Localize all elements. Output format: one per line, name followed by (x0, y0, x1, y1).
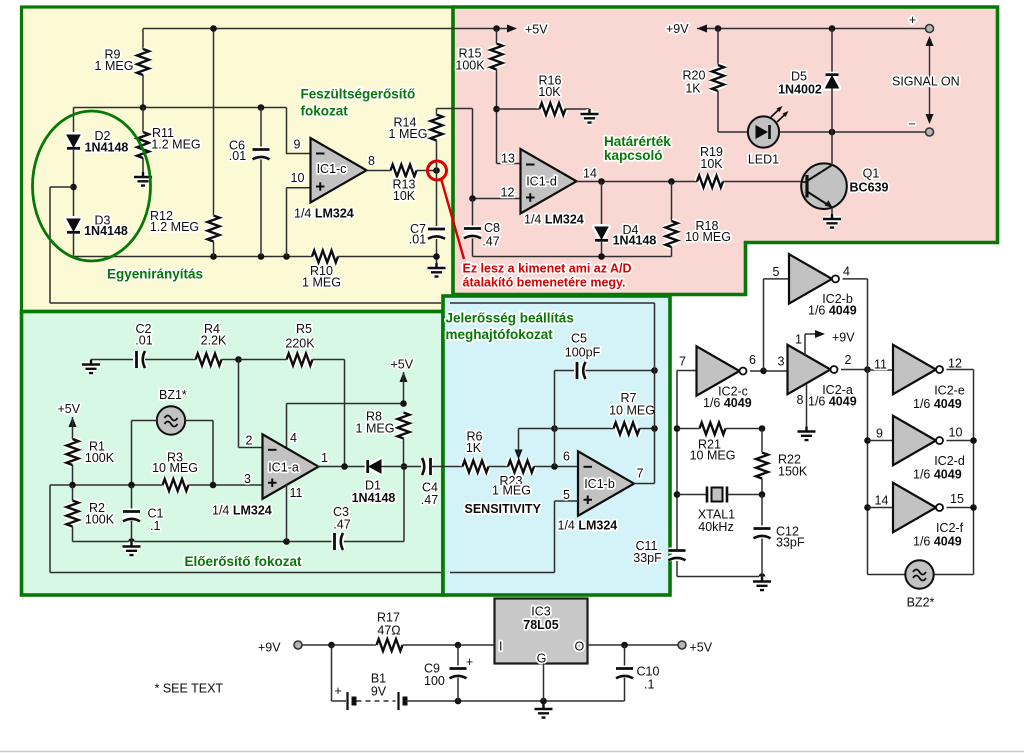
wire battery branch (332, 645, 347, 701)
wire pin9 (287, 108, 311, 154)
svg-text:47Ω: 47Ω (377, 624, 400, 638)
wire R18 bottom (671, 247, 673, 257)
capacitor C5 (565, 332, 601, 380)
op-amp IC1-c (311, 138, 376, 203)
label pin 1 (795, 333, 802, 347)
svg-text:100K: 100K (85, 513, 115, 527)
node dot bus/IC2-d in (864, 437, 871, 444)
resistor R8 (356, 410, 410, 439)
label 1/4 LM324 (IC1-b) (558, 519, 618, 533)
wire G pin (543, 664, 545, 702)
wire C8 bottom (472, 239, 474, 257)
annotation red text (463, 262, 632, 290)
node dot rail/R15 (493, 25, 500, 32)
node dot D2/D3 (70, 184, 77, 191)
svg-text:1 MEG: 1 MEG (302, 276, 341, 290)
node dot pin6/feedback (551, 463, 558, 470)
wire IC2-a pin1 +9V (805, 330, 825, 355)
ground R11 (134, 172, 152, 186)
wire IC2-f out (947, 507, 974, 509)
capacitor C4 (421, 458, 438, 507)
svg-text:1: 1 (795, 333, 802, 347)
svg-text:3: 3 (244, 472, 251, 486)
wire IC2-e out + right bus (934, 370, 974, 575)
node dot C7/bottom rail (433, 253, 440, 260)
ground IC2-a pin8 (798, 427, 816, 441)
wire pin5 return mint part (50, 485, 441, 573)
node dot wiper/R7 (551, 425, 558, 432)
arrow +9V left (697, 25, 707, 33)
svg-text:.01: .01 (409, 233, 426, 247)
label 1/4 LM324 (IC1-c) (294, 207, 354, 221)
wire R16 right (566, 108, 590, 110)
svg-text:12: 12 (501, 186, 515, 200)
svg-text:10 MEG: 10 MEG (152, 461, 198, 475)
wire D5 top (831, 29, 833, 74)
measure arrow SIGNAL ON (926, 36, 934, 124)
op-amp IC1-b (578, 451, 644, 516)
wire pin5 IC2-b drop (764, 279, 790, 371)
wire node A horizontal (74, 107, 287, 109)
svg-text:2: 2 (845, 353, 852, 367)
crystal XTAL1 (698, 487, 735, 535)
wire C10 (624, 645, 626, 701)
svg-text:R20: R20 (683, 69, 706, 83)
label battery plus (334, 684, 341, 698)
svg-text:14: 14 (583, 167, 597, 181)
label pin 11 (290, 486, 303, 500)
label pin 4 (290, 431, 297, 445)
wire R23-pin6 (534, 466, 578, 468)
svg-text:4: 4 (843, 265, 850, 279)
label pin 5 (IC2-b) (773, 265, 780, 279)
label pin 2 (246, 434, 253, 448)
wire IC2-d in (868, 440, 894, 442)
resistor R9 (95, 48, 149, 76)
wire R20 top (717, 29, 719, 65)
svg-text:1.2 MEG: 1.2 MEG (151, 138, 200, 152)
svg-text:Határérték: Határérték (604, 134, 671, 149)
node dot D4/out (598, 178, 605, 185)
wire C2 left (91, 359, 133, 361)
block: signal level / driver region (cyan) (443, 296, 670, 595)
block: preamp stage region (mint green) (22, 312, 444, 596)
svg-text:.1: .1 (644, 678, 654, 692)
annotation green ellipse (33, 111, 151, 261)
svg-text:1: 1 (321, 451, 328, 465)
svg-text:9: 9 (876, 427, 883, 441)
node dot outbus/IC2a (864, 366, 871, 373)
wire R11 top (142, 108, 144, 133)
label pin 9 (294, 138, 301, 152)
svg-text:1/4 LM324: 1/4 LM324 (212, 504, 272, 518)
svg-text:8: 8 (797, 393, 804, 407)
svg-text:11: 11 (290, 486, 303, 500)
svg-text:.47: .47 (482, 235, 499, 249)
node dot BZ1r/rail (210, 482, 217, 489)
wire C1 (131, 485, 133, 542)
wire R4-node (222, 359, 239, 361)
svg-text:.01: .01 (229, 149, 246, 163)
node dot R18/out (668, 178, 675, 185)
wire Q1 emitter (831, 208, 833, 215)
svg-text:C8: C8 (484, 221, 500, 235)
svg-text:1K: 1K (466, 441, 482, 455)
wire +9V to R17 (302, 644, 376, 646)
svg-text:40kHz: 40kHz (698, 520, 733, 534)
node dot C5/outnet (651, 367, 658, 374)
capacitor C2 (135, 322, 152, 368)
wire C7 bottom (436, 239, 438, 263)
resistor R7 (609, 391, 655, 435)
capacitor C1 (123, 507, 164, 534)
svg-text:Jelerősség beállítás: Jelerősség beállítás (446, 311, 574, 326)
capacitor C8 (464, 221, 500, 249)
wire feedback vertical (554, 371, 556, 467)
label pin 10 (291, 171, 305, 185)
label pin 3 (778, 355, 785, 369)
svg-text:10 MEG: 10 MEG (685, 230, 731, 244)
wire C5 right (586, 370, 655, 372)
ground R16 (581, 109, 599, 123)
resistor R10 (302, 251, 341, 290)
ground Q1 (823, 214, 841, 228)
wire IC2-b out (843, 278, 868, 280)
node dot R4/R5/pin2 (235, 356, 242, 363)
regulator IC3 78L05 (495, 599, 588, 666)
svg-text:Előerősítő fokozat: Előerősítő fokozat (185, 554, 303, 569)
node dot bus/IC2-f in (864, 504, 871, 511)
wire R9 bottom (142, 75, 144, 108)
wire BZ1 left (132, 421, 157, 486)
svg-text:Ez lesz a kimenet ami az A/D: Ez lesz a kimenet ami az A/D (463, 262, 632, 276)
inverter IC2-d (893, 416, 965, 482)
svg-text:1 MEG: 1 MEG (95, 59, 134, 73)
svg-text:+: + (334, 684, 341, 698)
node dot R7/outnet (651, 425, 658, 432)
diode D1 (352, 460, 396, 505)
svg-text:IC3: IC3 (531, 605, 551, 619)
resistor R4 (196, 322, 228, 366)
diode D2 (67, 129, 128, 155)
wire IC2-d out (947, 440, 974, 442)
svg-text:Feszültségerősítő: Feszültségerősítő (301, 87, 416, 102)
resistor R19 (697, 145, 723, 188)
wire R20 to LED (718, 91, 748, 132)
wire XTAL right (727, 494, 762, 496)
svg-text:4: 4 (290, 431, 297, 445)
label pin 14 (875, 494, 889, 508)
svg-text:1/6 4049: 1/6 4049 (808, 395, 857, 409)
node dot C9 top (455, 642, 462, 649)
svg-text:1/6 4049: 1/6 4049 (913, 397, 962, 411)
arrow +5V up (R8) (400, 372, 408, 404)
svg-text:3: 3 (778, 355, 785, 369)
svg-text:6: 6 (563, 450, 570, 464)
block: rectifier stage region (yellow) (22, 7, 454, 312)
svg-text:+5V: +5V (391, 358, 414, 372)
resistor R17 (377, 611, 403, 652)
wire R8 bottom (403, 439, 405, 467)
annotation red circle (428, 161, 447, 180)
svg-text:1K: 1K (685, 82, 701, 96)
inverter IC2-b (789, 254, 857, 317)
wire node3 rail (50, 484, 263, 486)
title Egyeniranyitas (107, 267, 203, 282)
block: threshold switch region (pink) (453, 7, 998, 295)
node dot C10 top (621, 642, 628, 649)
wire mint bottom rail (73, 467, 405, 542)
wire C12 bottom (761, 539, 763, 577)
svg-text:+9V: +9V (258, 641, 281, 655)
wire R9 top (142, 29, 144, 50)
node dot R1/rail (69, 482, 76, 489)
svg-text:SENSITIVITY: SENSITIVITY (465, 502, 542, 516)
svg-text:kapcsoló: kapcsoló (604, 148, 663, 163)
svg-text:5: 5 (773, 265, 780, 279)
svg-text:SIGNAL ON: SIGNAL ON (892, 75, 960, 89)
wire IC2-a pin8 (806, 384, 808, 427)
svg-text:+9V: +9V (832, 331, 855, 345)
svg-text:11: 11 (874, 358, 887, 372)
svg-text:220K: 220K (285, 337, 315, 351)
wire D2-D3 (73, 149, 75, 220)
node dot LED/D5/Q1 (829, 129, 836, 136)
svg-text:+5V: +5V (525, 23, 548, 37)
label +5V (525, 23, 548, 37)
wire IC1-a out (318, 466, 367, 468)
node dot C9 bottom (455, 698, 462, 705)
wire R19 right to Q1 base (723, 181, 802, 183)
svg-text:100: 100 (424, 674, 445, 688)
svg-text:100K: 100K (85, 451, 115, 465)
svg-text:BZ2*: BZ2* (907, 596, 935, 610)
svg-text:+5V: +5V (690, 641, 713, 655)
node dot outbus/IC2-f (970, 504, 977, 511)
wire R6-R23 (489, 466, 509, 468)
wire R1 bottom (72, 465, 74, 485)
wire pin10 (287, 188, 311, 257)
label +5V (R1) (58, 402, 81, 416)
ground IC3 (535, 704, 553, 718)
svg-text:O: O (575, 640, 585, 654)
svg-text:100pF: 100pF (565, 346, 601, 360)
node dot C12/bottom (759, 573, 766, 580)
wire pin11 (286, 485, 288, 542)
title Feszultsegerosito fokozat (301, 87, 416, 119)
wire C4 to R6 (431, 466, 463, 468)
svg-text:BZ1*: BZ1* (159, 388, 187, 402)
resistor R20 (683, 65, 724, 96)
title Jelerosseg beallitas (446, 311, 574, 343)
svg-text:1/6 4049: 1/6 4049 (808, 304, 857, 318)
node dot BZ1l/rail (128, 482, 135, 489)
resistor R5 (285, 322, 315, 366)
wire IC2-f in (868, 507, 894, 509)
wire pin2 (239, 360, 263, 448)
node dot R12/rail (210, 25, 217, 32)
wire R22 top (761, 429, 763, 453)
resistor R14 (389, 115, 443, 142)
wire pin13 (497, 163, 521, 165)
svg-text:Q1: Q1 (863, 167, 880, 181)
resistor R2 (67, 501, 115, 527)
svg-text:1 MEG: 1 MEG (492, 484, 531, 498)
title Hatarertek kapcsolo (604, 134, 671, 163)
battery B1 cell1 (348, 692, 355, 710)
wire IC2-c out (750, 370, 788, 372)
wire D2 anode (73, 108, 75, 136)
node dot R8/C3/out (401, 463, 408, 470)
label pin 8 (797, 393, 804, 407)
label 1/4 LM324 (IC1-a) (212, 504, 272, 518)
LED LED1 (748, 106, 789, 167)
label pin 13 (501, 152, 515, 166)
svg-text:+: + (909, 13, 916, 27)
resistor R16 (538, 74, 565, 116)
wire C6 bottom (260, 160, 262, 257)
wire R15 bottom (496, 70, 498, 164)
svg-text:* SEE TEXT: * SEE TEXT (155, 682, 224, 696)
label 1/4 LM324 (IC1-d) (524, 213, 584, 227)
resistor R18 (666, 219, 731, 247)
wire C8 top (472, 199, 474, 229)
node dot R5/out (341, 463, 348, 470)
buzzer BZ1 (157, 388, 187, 435)
svg-text:1 MEG: 1 MEG (356, 422, 395, 436)
svg-text:.1: .1 (150, 519, 160, 533)
ground C2 (82, 360, 100, 374)
svg-text:10: 10 (291, 171, 305, 185)
svg-text:+5V: +5V (58, 402, 81, 416)
capacitor C7 (409, 222, 445, 247)
wire pink bottom rail (473, 256, 672, 258)
op-amp IC1-d (521, 149, 597, 214)
svg-text:9: 9 (294, 138, 301, 152)
svg-text:meghajtófokozat: meghajtófokozat (446, 327, 554, 342)
svg-text:33pF: 33pF (633, 551, 662, 565)
wire osc bottom (677, 576, 762, 578)
wire R5 wiring (239, 360, 345, 467)
svg-text:2.2K: 2.2K (201, 334, 227, 348)
wire C7 top (436, 171, 438, 229)
buzzer BZ2 (905, 560, 934, 609)
wire R21 left (677, 428, 700, 430)
svg-text:R17: R17 (377, 611, 400, 625)
wire feedback loop left (50, 187, 441, 303)
wire C12 top (761, 495, 763, 529)
wire R2 (72, 485, 74, 542)
svg-text:1/6 4049: 1/6 4049 (703, 396, 752, 410)
wire R12 bottom (213, 242, 215, 257)
node dot pin12/C8 (469, 195, 476, 202)
svg-text:1/4 LM324: 1/4 LM324 (294, 207, 354, 221)
resistor R13 (391, 165, 417, 204)
inverter IC2-e (893, 345, 965, 411)
svg-text:R5: R5 (296, 322, 312, 336)
wire R14 bottom (436, 141, 438, 171)
node dot XTAL/pin7 (674, 491, 681, 498)
wire R7 left (555, 428, 614, 430)
svg-text:D5: D5 (791, 70, 807, 84)
wire R16 left (497, 108, 540, 110)
node dot pin11/bottom (283, 538, 290, 545)
op-amp IC1-a (263, 434, 329, 499)
svg-text:.01: .01 (135, 334, 152, 348)
svg-text:.47: .47 (421, 493, 438, 507)
wire pin4 rail (287, 404, 404, 449)
diode D5 (778, 70, 838, 97)
label pin 6 (563, 450, 570, 464)
svg-text:IC2-f: IC2-f (936, 521, 964, 535)
svg-text:150K: 150K (778, 465, 808, 479)
terminal - (SIGNAL ON) (908, 117, 933, 136)
label SIGNAL ON (892, 75, 960, 89)
wire +5V top rail (143, 28, 509, 30)
svg-text:1N4148: 1N4148 (613, 234, 657, 248)
wire R17 to IC3 (403, 644, 495, 646)
svg-text:LED1: LED1 (748, 153, 779, 167)
svg-text:8: 8 (368, 154, 375, 168)
resistor R22 (756, 453, 808, 479)
wire pin7 net vertical (677, 371, 697, 577)
svg-text:15: 15 (950, 492, 964, 506)
svg-text:IC2-e: IC2-e (934, 384, 965, 398)
label pin 11 (874, 358, 887, 372)
terminal +5V output (678, 641, 713, 655)
wire R15 top (496, 29, 498, 44)
svg-text:6: 6 (749, 353, 756, 367)
svg-text:átalakító bemenetére megy.: átalakító bemenetére megy. (463, 276, 626, 290)
svg-text:1N4148: 1N4148 (352, 491, 396, 505)
wire IC1-c out (367, 170, 391, 172)
wire R21 right (726, 428, 763, 430)
node dot D5/rail (829, 25, 836, 32)
ground C1 (123, 542, 141, 556)
wire R11 bottom (142, 158, 144, 172)
node dot C1/bottom (128, 538, 135, 545)
wire LED to minus terminal (780, 131, 926, 133)
svg-text:1/4 LM324: 1/4 LM324 (558, 519, 618, 533)
svg-text:1/4 LM324: 1/4 LM324 (524, 213, 584, 227)
transistor Q1 (801, 163, 888, 209)
svg-text:1/6 4049: 1/6 4049 (913, 468, 962, 482)
node dot battery tap (328, 642, 335, 649)
wire C9 (457, 645, 459, 701)
wire D4 top (601, 182, 603, 228)
wire inverter input bus (868, 279, 906, 575)
node dot outbus/IC2-d (970, 437, 977, 444)
wire pin12 (473, 198, 521, 200)
svg-text:33pF: 33pF (776, 536, 805, 550)
node dot R21/R22 (759, 425, 766, 432)
svg-text:−: − (908, 117, 915, 131)
svg-text:13: 13 (501, 152, 515, 166)
svg-text:10 MEG: 10 MEG (690, 449, 736, 463)
label pin 12 (501, 186, 515, 200)
wire XTAL left (677, 494, 707, 496)
svg-text:7: 7 (679, 355, 686, 369)
wire IC1-d out (577, 181, 698, 183)
wire bottom rail psu (406, 700, 625, 702)
terminal + (SIGNAL ON) (909, 13, 934, 33)
svg-text:I: I (499, 640, 502, 654)
capacitor C9 (424, 655, 473, 688)
capacitor C12 (754, 525, 805, 550)
wire R7 right (640, 428, 655, 430)
capacitor C10 (616, 665, 659, 692)
wire IC2-a out (841, 369, 868, 371)
